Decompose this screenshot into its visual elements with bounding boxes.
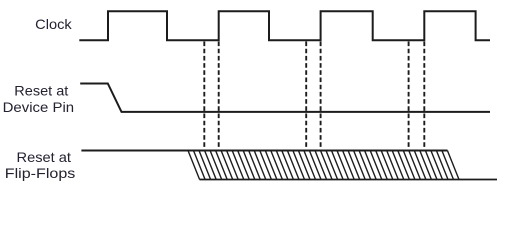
reset at device pin waveform — [80, 84, 490, 112]
dashed marker pair 3 (before/at 4th rising edge) — [408, 42, 410, 150]
dashed marker pair 1 (before/at 2nd rising edge) — [204, 42, 424, 150]
reset at flip-flops bottom line — [200, 179, 498, 181]
reset at flip-flops top line — [81, 150, 447, 152]
svg-text:Reset at: Reset at — [17, 149, 72, 165]
dashed marker pair 2 (before/at 3rd rising edge) — [305, 42, 307, 150]
svg-text:Device Pin: Device Pin — [3, 99, 75, 115]
clock waveform — [79, 11, 490, 40]
svg-text:Flip-Flops: Flip-Flops — [5, 165, 76, 181]
hatched uncertainty region — [188, 151, 459, 180]
svg-text:Reset at: Reset at — [14, 82, 68, 98]
svg-text:Clock: Clock — [35, 16, 73, 32]
